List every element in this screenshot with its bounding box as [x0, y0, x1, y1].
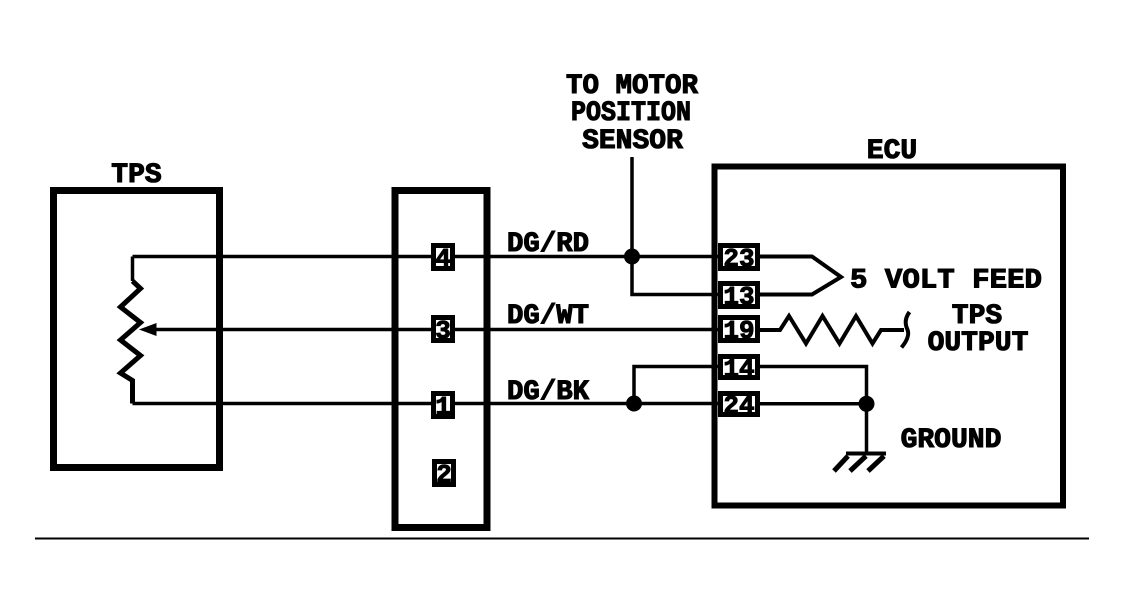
node junction on DG/BK left — [626, 396, 642, 412]
TPS box — [54, 191, 220, 468]
wire DG/RD (5V feed wire) — [133, 255, 719, 258]
svg-text:DG/WT: DG/WT — [507, 301, 589, 332]
svg-text:OUTPUT: OUTPUT — [928, 328, 1029, 359]
ECU pin 19 — [721, 316, 758, 346]
svg-text:24: 24 — [723, 391, 754, 421]
connector pin 2 — [435, 460, 454, 490]
potentiometer resistor zigzag — [121, 281, 141, 404]
svg-text:DG/BK: DG/BK — [507, 377, 589, 408]
wiper arrowhead — [139, 323, 157, 336]
ECU pin 23 — [721, 244, 758, 274]
svg-text:DG/RD: DG/RD — [507, 229, 589, 260]
ground symbol — [834, 454, 886, 472]
continuation squiggle — [902, 312, 910, 348]
node junction ground — [859, 396, 875, 412]
ECU pin 14 — [721, 354, 758, 384]
svg-text:ECU: ECU — [867, 136, 917, 167]
wire from pin 24 to ground node — [760, 402, 867, 406]
svg-text:19: 19 — [723, 316, 754, 346]
svg-text:TPS: TPS — [111, 160, 161, 191]
svg-text:3: 3 — [435, 316, 451, 346]
wire DG/BK — [133, 402, 722, 405]
wire down to ground symbol — [865, 404, 869, 452]
resistor at pin 19 (TPS output) — [758, 316, 905, 344]
connector pin 3 — [434, 316, 453, 346]
ECU pin 13 — [721, 282, 758, 312]
ECU pin 24 — [721, 391, 758, 421]
wire branch to pin 14 — [634, 367, 721, 404]
wire DG/WT wiper — [152, 328, 718, 331]
node junction on DG/RD — [624, 249, 640, 265]
5 volt feed arrow — [758, 257, 842, 295]
connector pin 4 — [434, 244, 453, 274]
svg-text:23: 23 — [723, 244, 754, 274]
svg-text:GROUND: GROUND — [901, 425, 1002, 456]
wire branch to pin 13 — [632, 256, 718, 295]
svg-text:SENSOR: SENSOR — [582, 126, 683, 157]
wire from pin 14 to ground node — [759, 367, 867, 404]
svg-text:2: 2 — [436, 460, 452, 490]
wire potentiometer top lead — [131, 257, 135, 282]
svg-text:POSITION: POSITION — [571, 98, 691, 129]
svg-text:4: 4 — [435, 244, 451, 274]
connector box — [395, 191, 487, 528]
bottom separator line — [35, 538, 1089, 540]
svg-text:13: 13 — [723, 282, 754, 312]
svg-text:14: 14 — [723, 354, 754, 384]
ECU box — [715, 167, 1064, 506]
connector pin 1 — [434, 392, 453, 422]
svg-text:1: 1 — [435, 392, 451, 422]
wire to motor position sensor — [630, 157, 634, 256]
svg-text:5 VOLT FEED: 5 VOLT FEED — [850, 266, 1042, 297]
